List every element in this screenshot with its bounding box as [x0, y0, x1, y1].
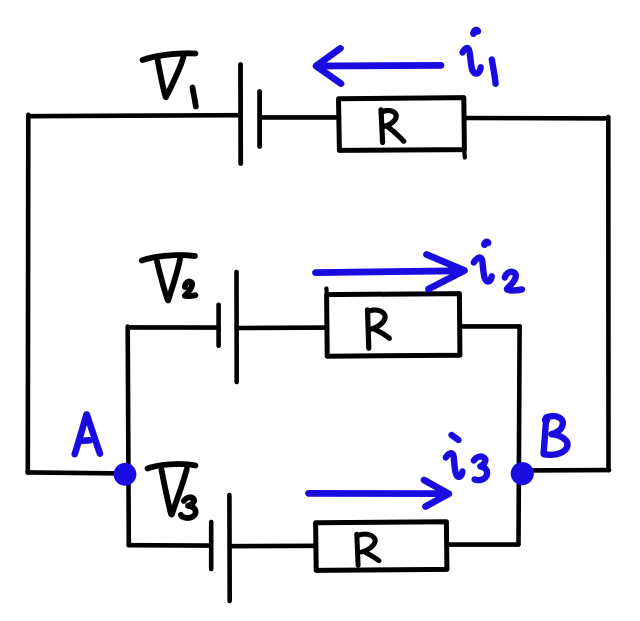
wire resistor to middle-right corner [460, 324, 520, 329]
label node B [542, 416, 568, 455]
label R top [381, 110, 404, 143]
resistor R middle box [326, 289, 460, 357]
node B dot [511, 462, 534, 485]
wire left outer vertical [25, 115, 30, 473]
battery V1 long plate [238, 65, 243, 164]
battery V1 short plate [257, 92, 262, 147]
battery V2 short plate [216, 305, 221, 346]
battery V3 long plate [227, 495, 232, 601]
wire battery V3 to resistor [231, 543, 316, 548]
current arrow i2 [316, 255, 465, 290]
label V2 [142, 255, 196, 300]
wire top-left horizontal (left corner to battery V1) [29, 115, 239, 116]
label node A [75, 415, 100, 455]
wire bottom-left horizontal to battery V3 [129, 543, 209, 548]
wire right horizontal to node B [524, 468, 609, 473]
wire middle-left horizontal to battery V2 [128, 325, 217, 330]
label R bottom [357, 534, 379, 565]
wire resistor to top-right corner [465, 116, 609, 121]
wire resistor to bottom-right corner [447, 542, 519, 547]
label V3 [148, 464, 196, 518]
node A dot [114, 463, 137, 486]
current arrow i3 [309, 480, 449, 507]
label i1 [463, 30, 496, 84]
current arrow i1 [316, 48, 441, 83]
battery V3 short plate [209, 522, 214, 569]
wire right outer vertical [606, 117, 611, 470]
wire middle-left vertical (through node A) [128, 327, 129, 546]
label V1 [143, 53, 196, 106]
wire battery V1 to resistor [261, 115, 339, 120]
wire battery V2 to resistor [238, 325, 327, 330]
label i2 [474, 242, 522, 291]
resistor R bottom box [316, 522, 447, 571]
wire bottom-left horizontal to node A [28, 472, 124, 473]
battery V2 long plate [234, 272, 239, 382]
wire middle-right vertical (through node B) [519, 326, 520, 544]
resistor R top box [339, 98, 465, 158]
label R middle [368, 310, 390, 348]
label i3 [446, 435, 487, 480]
